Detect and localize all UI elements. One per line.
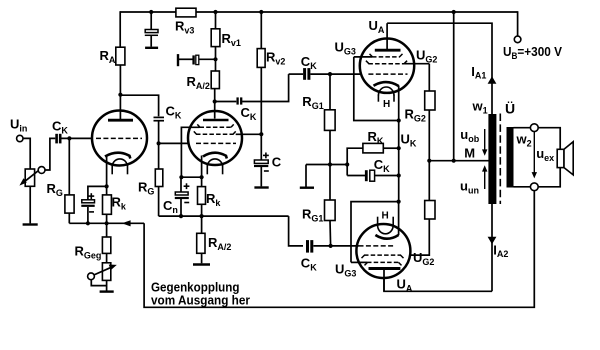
- node UB terminal circle: [514, 36, 521, 43]
- capacitor T-cap plates: [194, 55, 199, 64]
- wire cathode bottom bus: [69, 222, 144, 224]
- tube V2 envelope: [188, 111, 242, 165]
- wire pot bottom to ground: [29, 186, 31, 223]
- wire tube2 g1 lead: [159, 142, 196, 144]
- wire rail corner down to UB terminal: [517, 11, 519, 36]
- node input pot wiper circle: [38, 167, 45, 174]
- svg-text:vom Ausgang her: vom Ausgang her: [151, 293, 250, 308]
- node RG1 mid junction: [328, 162, 332, 166]
- tube V2 cathode lead: [201, 156, 203, 178]
- wire input terminal to pot top: [23, 138, 30, 169]
- capacitor CK output lower plates: [308, 240, 312, 253]
- wire g2 lead upper to RG2: [405, 63, 430, 65]
- potentiometer RGeg box: [102, 263, 110, 281]
- resistor RG2 upper: [425, 91, 435, 110]
- tube V1 heater loop: [112, 159, 127, 166]
- wire secondary top to speaker: [538, 128, 560, 150]
- tube V2 g1 dashed: [196, 142, 236, 144]
- arrow IA2 down: [488, 237, 497, 244]
- node cathode2 junction left: [179, 175, 183, 179]
- wire secondary top: [514, 127, 531, 129]
- wire M line to transformer: [429, 160, 488, 162]
- node cathode2 junction right: [200, 175, 204, 179]
- wire RGeg to pot: [106, 253, 108, 262]
- node rail junction at Rv1: [213, 10, 217, 14]
- ground bar below RA/2 lower: [193, 263, 210, 265]
- resistor RG second: [155, 169, 163, 187]
- wire mid ground lead: [305, 165, 307, 187]
- tube V4 cathode arc: [375, 235, 398, 239]
- transformer secondary bar: [507, 127, 514, 188]
- tube V4 lower output envelope: [356, 224, 410, 278]
- node tube2 anode junction: [213, 99, 217, 103]
- tube V3 g1 dashed: [368, 73, 407, 75]
- wire RA bottom lead: [119, 65, 121, 95]
- wire RG1st top lead: [68, 138, 70, 195]
- wire g3 to cathode path upper: [354, 57, 399, 121]
- wire RA top lead: [119, 11, 121, 47]
- svg-text:C: C: [272, 154, 282, 169]
- wire cathode1 cap bottom lead: [87, 207, 89, 223]
- wire g3 lead upper: [354, 56, 372, 58]
- ground bar below C: [254, 186, 268, 188]
- resistor Rv1: [211, 29, 220, 47]
- transformer core dashed: [499, 114, 501, 205]
- tube V2 anode lead: [214, 102, 216, 119]
- tube V3 anode lead: [386, 23, 388, 49]
- node cathode4 junction: [397, 200, 401, 204]
- tube V4 heater loop: [378, 225, 394, 234]
- wire primary bottom lead: [491, 204, 493, 291]
- wire lower CK to g1: [331, 245, 359, 247]
- capacitor cathode1 electrolytic plates: [81, 200, 94, 206]
- tube V2 g2 dashed with hooks: [194, 131, 236, 134]
- wire Cn bottom lead: [180, 199, 182, 216]
- node rail junction at bypass cap: [149, 10, 153, 14]
- wire cathode2 link: [181, 176, 201, 178]
- wire RGeg pot bottom lead: [106, 280, 108, 290]
- capacitor bypass bottom lead: [150, 36, 152, 47]
- tube V3 upper output envelope: [360, 38, 414, 92]
- wire C bottom lead: [260, 167, 262, 186]
- C plus sign: [263, 153, 269, 159]
- node Rk1 bottom junction: [105, 221, 109, 225]
- arrow uun up: [482, 165, 487, 189]
- node RK left junction: [345, 162, 349, 166]
- wire RA/2 bottom lead: [214, 89, 216, 102]
- svg-text:Ü: Ü: [505, 101, 515, 117]
- wire CK interstage bottom lead: [158, 122, 160, 170]
- wire RK left path: [347, 148, 363, 175]
- tube V2 cathode arc: [203, 153, 227, 159]
- wire RG1st bottom lead: [68, 213, 70, 223]
- wire RK right lead: [383, 147, 398, 149]
- node Cn bottom junction: [179, 214, 183, 218]
- wire Rk2 top lead: [201, 177, 203, 186]
- wire Rk2 bottom lead: [201, 204, 203, 216]
- resistor RA/2 upper: [211, 71, 219, 89]
- resistor RA/2 lower: [197, 233, 205, 253]
- svg-text:H: H: [382, 211, 389, 222]
- wire RG2 lower bottom to g2: [402, 219, 429, 255]
- tube V4 heater legs: [377, 217, 379, 227]
- capacitor CK input plates: [57, 134, 61, 144]
- wire RA/2 lower top lead: [201, 216, 203, 233]
- wire RG1 upper top lead: [329, 74, 331, 110]
- potentiometer RGeg wiper arrow: [92, 267, 112, 276]
- node supply rail junction: [452, 10, 456, 14]
- wire anode1 node to interstage cap: [120, 95, 158, 116]
- node RG1 upper junction: [328, 72, 332, 76]
- resistor RG first: [65, 195, 74, 213]
- resistor RG2 lower: [425, 201, 435, 220]
- tube V3 cathode lead: [398, 86, 400, 121]
- node cathode3 junction: [397, 118, 401, 122]
- arrow IA1 up: [488, 76, 497, 83]
- arrow uob down: [482, 129, 487, 156]
- tube V1 cathode lead: [106, 156, 108, 187]
- ground bar mid: [300, 186, 314, 188]
- tube V1 envelope: [92, 111, 147, 166]
- tube V4 anode bar: [369, 267, 401, 270]
- wire anode2 to CK plates: [215, 101, 237, 103]
- node Uin input terminal: [17, 135, 23, 141]
- wire tube2 g2 lead to Rv2 node: [236, 133, 262, 135]
- ground bar below RGeg: [100, 290, 114, 292]
- arrow uex down: [532, 132, 537, 179]
- tube V3 g3 dashed with hooks: [370, 54, 403, 57]
- Cn minus sign: [184, 202, 189, 204]
- node RGeg wiper circle: [88, 273, 95, 280]
- wire ground link mid: [306, 164, 347, 166]
- wire lower rail from RG bus down: [289, 216, 303, 246]
- svg-text:M: M: [464, 146, 475, 161]
- tube V3 g2 dashed with hooks: [366, 61, 407, 64]
- wire RG2nd bottom lead: [158, 187, 160, 217]
- tube V1 anode bar: [108, 119, 133, 122]
- wire RG1 upper bottom lead: [329, 130, 331, 200]
- wire RG1 lower bottom lead: [329, 221, 332, 246]
- wire CK bypass right wire: [375, 175, 399, 177]
- node Rv1 RA/2 junction: [213, 57, 217, 61]
- wire rail right of Rv3: [196, 11, 518, 13]
- resistor Rk second: [198, 187, 206, 205]
- ground bar below bypass cap: [145, 47, 158, 49]
- wire feedback from secondary to bottom rail: [144, 191, 534, 308]
- tube V4 g2 dashed with hooks: [362, 255, 404, 258]
- node cathode line RK junction: [397, 146, 401, 150]
- tube V3 heater loop: [378, 87, 394, 96]
- node anode1 junction: [118, 93, 122, 97]
- tube V2 heater loop: [207, 159, 222, 166]
- tube V4 anode lead: [383, 270, 385, 292]
- node secondary bottom terminal: [530, 183, 538, 191]
- wire supply drop to M: [453, 12, 455, 161]
- resistor Rv3: [176, 8, 196, 17]
- node tube2 grid junction: [157, 141, 161, 145]
- wire lower CK right wire: [313, 245, 330, 247]
- wire Rv2 top lead: [260, 12, 262, 49]
- capacitor Cn plates: [175, 192, 189, 198]
- capacitor CK tube2 output plates: [238, 97, 242, 104]
- wire lower anode line: [384, 270, 492, 291]
- speaker horn: [564, 142, 573, 175]
- resistor RK cathode: [363, 143, 383, 153]
- capacitor CK interstage plates: [154, 117, 165, 120]
- capacitor T-cap terminal bar: [177, 54, 179, 66]
- C minus sign: [264, 170, 269, 172]
- node g2 supply junction: [259, 132, 263, 136]
- potentiometer input wiper arrow: [23, 169, 42, 184]
- potentiometer input box: [25, 169, 34, 186]
- wire Rk1 top lead: [106, 186, 108, 195]
- wire CK bypass left wire: [347, 175, 365, 177]
- node M junction supply: [452, 159, 456, 163]
- node rail junction at Rv2: [259, 10, 263, 14]
- arrow feedback pointing left: [122, 220, 131, 226]
- wire RG2 upper top lead: [428, 64, 430, 91]
- wire CK to upper corner: [242, 74, 289, 101]
- node cap1 bottom junction: [86, 221, 90, 225]
- capacitor bypass plates: [145, 30, 158, 36]
- wire top supply rail: [120, 11, 176, 13]
- tube V4 g1 dashed: [359, 245, 395, 247]
- wire g3 to cathode path lower: [351, 202, 399, 263]
- wire Rk1 bottom lead: [106, 214, 108, 223]
- node cathode line CK junction: [397, 173, 401, 177]
- wire Cn top lead: [180, 177, 182, 192]
- wire Rv1 bottom lead to node: [215, 47, 217, 71]
- wire RA/2 lower bottom lead: [201, 253, 203, 263]
- tube V3 heater legs: [377, 95, 379, 102]
- tube V2 heater legs: [206, 165, 208, 174]
- wire wiper to CK input: [45, 138, 55, 170]
- wire secondary bottom to speaker: [538, 168, 560, 187]
- resistor Rk first: [103, 195, 112, 214]
- ground bar below input pot: [23, 223, 38, 225]
- tube V4 cathode lead: [398, 202, 400, 235]
- node RG1 lower junction: [329, 244, 333, 248]
- wire g3 lead lower: [351, 261, 367, 263]
- tube V1 cathode arc: [105, 153, 130, 159]
- wire CK input to tube1 grid: [62, 137, 97, 139]
- wire cathode line upper to lower: [398, 121, 400, 202]
- tube V1 anode lead: [119, 95, 121, 119]
- wire RGeg top lead: [106, 223, 108, 237]
- Cn plus sign: [184, 183, 190, 189]
- tube V3 anode bar: [375, 49, 401, 52]
- node M junction RG2: [427, 159, 431, 163]
- wire RG2 upper bottom lead: [428, 110, 430, 161]
- tube V2 g3 dashed with hooks: [197, 124, 233, 127]
- capacitor CK output upper plates: [305, 68, 309, 80]
- wire RGeg wiper to bottom: [91, 280, 106, 286]
- svg-text:H: H: [383, 99, 390, 110]
- tube V2 g3 lead to cathode: [181, 127, 199, 177]
- transformer primary bar: [488, 114, 496, 204]
- resistor RG1 upper: [325, 110, 336, 131]
- resistor RA: [116, 47, 125, 65]
- wire secondary bottom: [514, 186, 531, 188]
- tube V2 anode bar: [203, 119, 229, 122]
- resistor RGeg: [102, 237, 110, 253]
- tube V1 heater legs: [111, 165, 113, 174]
- cap1 minus sign: [89, 211, 94, 213]
- wire Rv1 top lead: [215, 12, 217, 29]
- wire T-cap left wire: [178, 58, 193, 60]
- resistor RG1 lower: [325, 200, 336, 221]
- capacitor bypass at Rv3 top lead: [150, 12, 152, 30]
- tube V4 g3 dashed with hooks: [365, 262, 402, 265]
- wire Rv2 bottom lead to g2 node: [260, 67, 262, 160]
- tube V3 cathode arc: [374, 82, 399, 86]
- wire cathode2 bottom rail: [159, 215, 289, 217]
- wire UA line upper: [387, 23, 492, 114]
- node junction CK/RG: [67, 136, 71, 140]
- speaker rect: [557, 149, 564, 167]
- wire T-cap right wire: [199, 58, 216, 60]
- capacitor CK cathode bypass plates: [366, 170, 374, 181]
- wire upper CK left wire: [289, 73, 303, 75]
- node cathode1 cap junction: [105, 184, 109, 188]
- cap1 plus sign: [88, 193, 94, 199]
- wire cathode1 to cap top: [88, 186, 107, 199]
- resistor Rv2: [257, 49, 265, 68]
- wire RG2 lower top lead: [428, 161, 430, 201]
- tube V1 grid dashed: [96, 137, 142, 139]
- capacitor C plates: [254, 160, 268, 166]
- node Rk2 bottom junction: [200, 214, 204, 218]
- wire upper CK to g1 of upper output tube: [311, 73, 369, 75]
- node secondary top terminal: [530, 124, 538, 132]
